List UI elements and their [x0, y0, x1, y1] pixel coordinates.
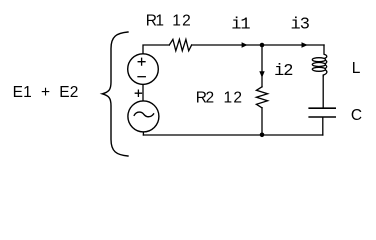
- inductor L loop 1: [312, 58, 325, 62]
- svg-text:12: 12: [172, 13, 192, 30]
- svg-text:i3: i3: [291, 16, 310, 35]
- wire R1 to top-right corner: [192, 44, 324, 46]
- svg-text:E1 + E2: E1 + E2: [13, 84, 79, 101]
- svg-text:i2: i2: [274, 62, 292, 81]
- inductor L loop 2: [312, 63, 325, 67]
- svg-text:i1: i1: [231, 16, 250, 35]
- wire between sources: [142, 85, 144, 101]
- wire capacitor to bottom rail: [322, 118, 324, 135]
- resistor R1: [169, 39, 191, 50]
- node junction bottom: [260, 133, 265, 138]
- svg-text:L: L: [352, 60, 361, 77]
- svg-text:C: C: [351, 107, 362, 124]
- node junction top: [260, 43, 265, 48]
- AC source E2 circle: [128, 101, 159, 132]
- wire top-left corner to R1: [143, 45, 169, 54]
- E1 minus mark: [138, 76, 145, 78]
- svg-text:R1: R1: [146, 13, 164, 30]
- inductor L loop 3: [312, 67, 325, 71]
- current arrow i1: [242, 42, 248, 47]
- brace: [102, 32, 128, 156]
- wire middle branch upper: [261, 45, 263, 87]
- wire inductor to capacitor: [322, 76, 324, 108]
- current arrow i3: [302, 42, 308, 47]
- E2 polarity plus: [135, 90, 141, 96]
- E2 sine wave: [134, 112, 153, 117]
- wire right branch top into inductor: [324, 45, 327, 58]
- E1 plus mark: [138, 58, 145, 65]
- capacitor C top plate: [309, 107, 335, 109]
- svg-text:R2: R2: [196, 90, 214, 107]
- wire AC source to bottom rail: [142, 132, 144, 135]
- current arrow i2: [259, 71, 264, 78]
- wire bottom rail: [143, 134, 322, 136]
- capacitor C bottom plate: [309, 116, 335, 118]
- inductor L right connectors: [323, 60, 327, 76]
- voltage source E1 circle: [128, 54, 159, 85]
- resistor R2: [256, 87, 267, 108]
- svg-text:12: 12: [224, 90, 244, 107]
- wire middle branch lower: [261, 108, 263, 135]
